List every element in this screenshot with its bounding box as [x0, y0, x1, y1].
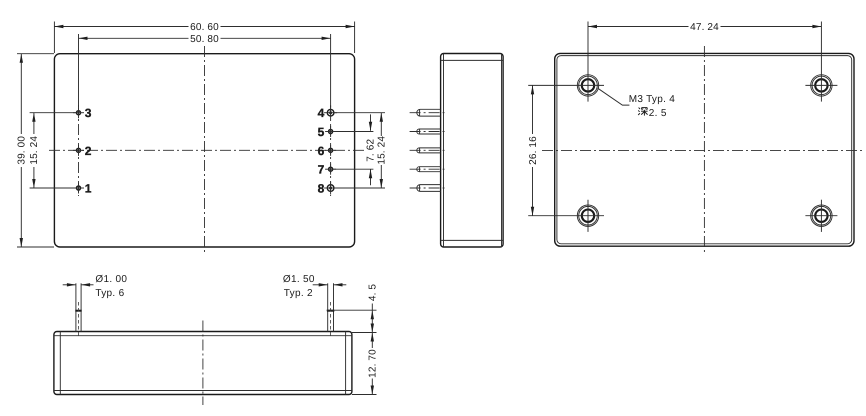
horizontal centerline view A: [49, 149, 365, 151]
svg-text:5: 5: [318, 125, 325, 139]
svg-text:7. 62: 7. 62: [366, 139, 377, 162]
svg-text:1: 1: [85, 181, 92, 195]
body outline view C: [555, 53, 854, 246]
vertical centerline view A: [204, 46, 206, 254]
pin 5 extension line: [333, 131, 374, 133]
dimension dia 1.00: [63, 274, 128, 299]
leader M3: [598, 88, 630, 105]
svg-text:15. 24: 15. 24: [376, 136, 387, 165]
svg-text:47. 24: 47. 24: [690, 22, 719, 33]
body outline view D: [54, 332, 352, 395]
mounting hole bottom-right: [805, 200, 837, 232]
svg-text:Typ. 6: Typ. 6: [95, 288, 124, 299]
mounting hole bottom-left: [528, 200, 604, 232]
dimension 60.60: [54, 22, 354, 54]
pin 5: [318, 125, 336, 139]
dimension 7.62: [366, 114, 377, 185]
dimension 26.16: [528, 85, 539, 215]
dimension 50.80: [79, 34, 331, 107]
body outline view B: [441, 54, 504, 248]
svg-text:Ø1. 50: Ø1. 50: [283, 274, 315, 285]
svg-text:15. 24: 15. 24: [29, 136, 40, 165]
body outline view A: [54, 54, 354, 247]
svg-text:2. 5: 2. 5: [649, 108, 667, 119]
side view pin row 3 (pin 6): [410, 148, 445, 153]
svg-text:Ø1. 00: Ø1. 00: [95, 274, 127, 285]
mounting hole top-left: [528, 22, 604, 102]
note depth 2.5: [638, 108, 667, 119]
svg-text:Typ. 2: Typ. 2: [284, 288, 313, 299]
side view pin row 2 (pin 5): [410, 129, 445, 134]
vertical centerline view D: [202, 321, 204, 406]
dimension dia 1.50: [283, 274, 346, 299]
svg-text:12. 70: 12. 70: [368, 349, 379, 378]
svg-text:39. 00: 39. 00: [17, 136, 28, 165]
pin 6: [318, 144, 336, 158]
svg-text:50. 80: 50. 80: [190, 34, 219, 45]
pin 4 extension line: [334, 112, 385, 114]
dimension 15.24 right: [376, 113, 387, 188]
svg-text:8: 8: [318, 181, 325, 195]
inner seam left D: [59, 332, 61, 395]
side view pin row 1 (pin 4, dia 1.5): [410, 109, 445, 116]
pin 1: [73, 181, 92, 195]
horizontal centerline view C: [542, 149, 863, 151]
svg-text:60. 60: 60. 60: [190, 22, 219, 33]
pin 7 extension line: [333, 168, 374, 170]
svg-text:4. 5: 4. 5: [368, 284, 379, 302]
pin 4: [318, 106, 337, 120]
dimension 15.24 left: [29, 113, 76, 188]
dimension 12.70: [352, 333, 379, 395]
pin 8 extension line: [334, 187, 385, 189]
svg-text:3: 3: [85, 106, 92, 120]
dimension 39.00: [17, 54, 54, 247]
front view right pin: [327, 283, 334, 336]
svg-text:M3 Typ. 4: M3 Typ. 4: [629, 94, 676, 105]
pin 2: [73, 144, 92, 158]
left pin column centerline: [78, 105, 80, 196]
inner seam right D: [345, 332, 347, 395]
svg-text:4: 4: [318, 106, 325, 120]
right pin column centerline: [330, 105, 332, 196]
pin 8: [318, 181, 337, 195]
svg-text:7: 7: [318, 163, 325, 177]
inner offset outline view C: [557, 56, 852, 244]
inner seam bottom: [441, 239, 504, 241]
pin 7: [318, 163, 336, 177]
inner seam bottom D: [54, 390, 352, 392]
mounting hole top-right: [805, 22, 837, 102]
dimension 47.24: [588, 22, 821, 33]
front view left pin: [75, 283, 81, 336]
dimension 4.5: [327, 284, 379, 333]
side view pin row 4 (pin 7): [410, 167, 445, 172]
inner seam right: [501, 54, 503, 248]
svg-text:2: 2: [85, 144, 92, 158]
inner seam top D: [54, 335, 352, 337]
svg-text:26. 16: 26. 16: [528, 136, 539, 165]
inner seam top: [441, 59, 504, 61]
inner seam left: [443, 54, 445, 248]
svg-text:6: 6: [318, 144, 325, 158]
side view pin row 5 (pin 8, dia 1.5): [410, 185, 445, 192]
pin 3: [73, 106, 92, 120]
vertical centerline view C (dashed): [703, 46, 705, 254]
